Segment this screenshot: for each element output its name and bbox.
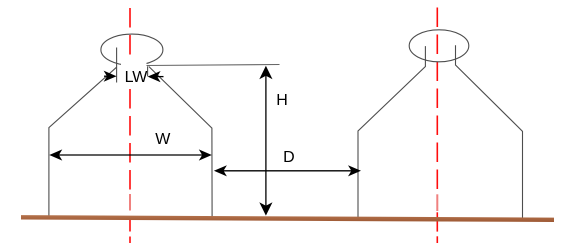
left tower left neck line — [116, 48, 118, 83]
left tower right neck tick — [147, 66, 149, 76]
H extension line (gray) — [146, 65, 280, 66]
centerline left tower faded dash — [129, 194, 131, 211]
centerline right tower (red dashed) — [436, 8, 438, 243]
right tower lamp ellipse — [409, 30, 469, 62]
left tower right slant and wall — [149, 67, 212, 217]
svg-text:D: D — [283, 149, 295, 166]
label LW background — [121, 62, 147, 87]
svg-text:LW: LW — [125, 69, 149, 86]
right tower left profile (neck, slant, wall) — [358, 46, 425, 217]
left tower lamp ellipse — [101, 34, 163, 65]
left tower left slant and wall — [49, 67, 117, 216]
centerline left tower (red dashed) — [129, 8, 131, 243]
centerline right tower faded dash — [436, 194, 438, 211]
dimension W double arrow — [49, 149, 212, 160]
dimension LW left arrow — [104, 71, 117, 82]
svg-text:W: W — [155, 131, 171, 148]
right tower right profile (neck, slant, wall) — [456, 45, 523, 217]
dimension LW right arrow — [148, 71, 164, 82]
svg-text:H: H — [276, 92, 288, 109]
dimension H double arrow — [259, 66, 272, 216]
dimension D double arrow — [214, 165, 361, 176]
